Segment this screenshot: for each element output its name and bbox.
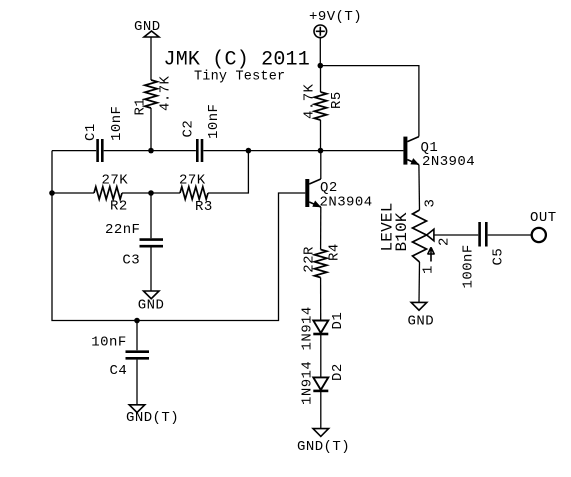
svg-text:+9V(T): +9V(T) (309, 9, 362, 25)
node bottom wire / C4 (134, 318, 140, 324)
terminal OUT (530, 210, 557, 242)
svg-text:3: 3 (423, 199, 439, 208)
ground GND (below pot) (408, 302, 435, 329)
wire node to C3 (150, 193, 152, 238)
resistor R3 27K (179, 172, 213, 215)
svg-text:2N3904: 2N3904 (320, 194, 373, 210)
svg-text:2N3904: 2N3904 (422, 154, 475, 170)
node at R5 top (318, 63, 324, 69)
svg-text:R1: R1 (133, 98, 149, 116)
svg-text:4.7K: 4.7K (302, 83, 318, 119)
diode D2 1N914 (300, 361, 347, 405)
wire node to C4 (136, 321, 138, 351)
svg-text:C1: C1 (83, 123, 99, 141)
wire +9V to top rail (319, 38, 321, 66)
svg-text:R4: R4 (327, 243, 343, 261)
svg-text:100nF: 100nF (461, 244, 477, 288)
svg-text:GND(T): GND(T) (297, 439, 350, 455)
node left rail / R2 (49, 190, 55, 196)
wire GND to R1 (150, 37, 152, 80)
svg-text:GND: GND (138, 297, 165, 313)
svg-text:GND: GND (134, 19, 161, 35)
svg-text:27K: 27K (179, 172, 206, 188)
wire R3 riser to main row (208, 151, 248, 193)
svg-text:C5: C5 (491, 248, 507, 266)
wire R4 to D1 (320, 278, 322, 321)
svg-text:Tiny Tester: Tiny Tester (194, 70, 285, 85)
diode D1 1N914 (300, 306, 347, 350)
svg-text:GND(T): GND(T) (126, 410, 179, 426)
node R3 riser junction (246, 148, 252, 154)
wire pot wiper to C5 (434, 234, 478, 236)
resistor R4 22R (302, 243, 343, 277)
wire C3 to ground (150, 248, 152, 292)
wire R5 top (320, 66, 322, 92)
svg-text:1N914: 1N914 (300, 361, 316, 405)
svg-text:C4: C4 (110, 363, 128, 379)
transistor Q2 2N3904 (305, 179, 372, 210)
svg-text:D1: D1 (330, 312, 346, 330)
wire Q2 emitter to R4 (320, 207, 322, 250)
svg-text:B10K: B10K (393, 212, 411, 251)
svg-text:22R: 22R (302, 246, 318, 273)
wire Q1 emitter to pot (418, 165, 421, 210)
svg-text:1: 1 (421, 265, 437, 274)
node R1/C1/C2 junction (148, 148, 154, 154)
capacitor C5 100nF (461, 222, 507, 289)
wire pot pin1 to ground (418, 262, 421, 302)
potentiometer LEVEL B10K (379, 199, 453, 274)
wire rail to R2 (52, 192, 94, 194)
wire main row left rail to C1 (52, 150, 96, 152)
capacitor C4 10nF (91, 334, 149, 379)
node R2/R3/C3 junction (148, 190, 154, 196)
svg-text:4.7K: 4.7K (158, 75, 174, 111)
ground GND(T) (below C4) (126, 405, 179, 426)
svg-text:2: 2 (437, 237, 453, 246)
resistor R1 4.7K (133, 75, 174, 115)
wire Q2 collector to node (320, 151, 322, 179)
svg-text:27K: 27K (102, 173, 129, 189)
svg-text:D2: D2 (330, 363, 346, 381)
svg-text:OUT: OUT (530, 210, 557, 226)
wire R2 to node (122, 192, 151, 194)
svg-text:C3: C3 (122, 252, 140, 268)
svg-text:C2: C2 (181, 120, 197, 138)
svg-text:Q2: Q2 (320, 180, 338, 196)
svg-text:R2: R2 (110, 199, 128, 215)
wire R1 to node (150, 108, 152, 151)
resistor R5 4.7K (302, 83, 346, 120)
capacitor C2 10nF (181, 104, 223, 162)
svg-text:R3: R3 (195, 199, 213, 215)
svg-text:22nF: 22nF (105, 222, 140, 238)
svg-text:10nF: 10nF (109, 106, 125, 141)
svg-text:10nF: 10nF (91, 334, 126, 350)
supply +9V(T) (309, 9, 362, 38)
wire R5 bottom to node (320, 120, 322, 151)
capacitor C1 10nF (83, 106, 125, 162)
wire D2 to ground (320, 391, 322, 429)
wire C5 to OUT (488, 234, 532, 236)
wire D1 to D2 (320, 334, 322, 377)
svg-text:10nF: 10nF (206, 104, 222, 139)
wire top rail to Q1 collector (320, 66, 419, 137)
wire C4 to ground (136, 360, 138, 405)
svg-text:GND: GND (408, 313, 435, 329)
resistor R2 27K (94, 173, 128, 215)
ground GND (top, above R1) (134, 19, 161, 37)
svg-text:1N914: 1N914 (300, 306, 316, 350)
wire C1 to C2 (104, 150, 196, 152)
capacitor C3 22nF (105, 222, 163, 268)
ground GND (below C3) (138, 291, 165, 313)
transistor Q1 2N3904 (403, 137, 475, 170)
ground GND(T) (below D2) (297, 429, 350, 455)
wire node to R3 (151, 192, 180, 194)
wire C2 to Q1 base (203, 150, 403, 152)
svg-text:R5: R5 (329, 91, 345, 109)
node R5/Q2 collector junction (318, 148, 324, 154)
svg-text:JMK (C) 2011: JMK (C) 2011 (164, 49, 310, 72)
wire left rail (52, 151, 305, 321)
